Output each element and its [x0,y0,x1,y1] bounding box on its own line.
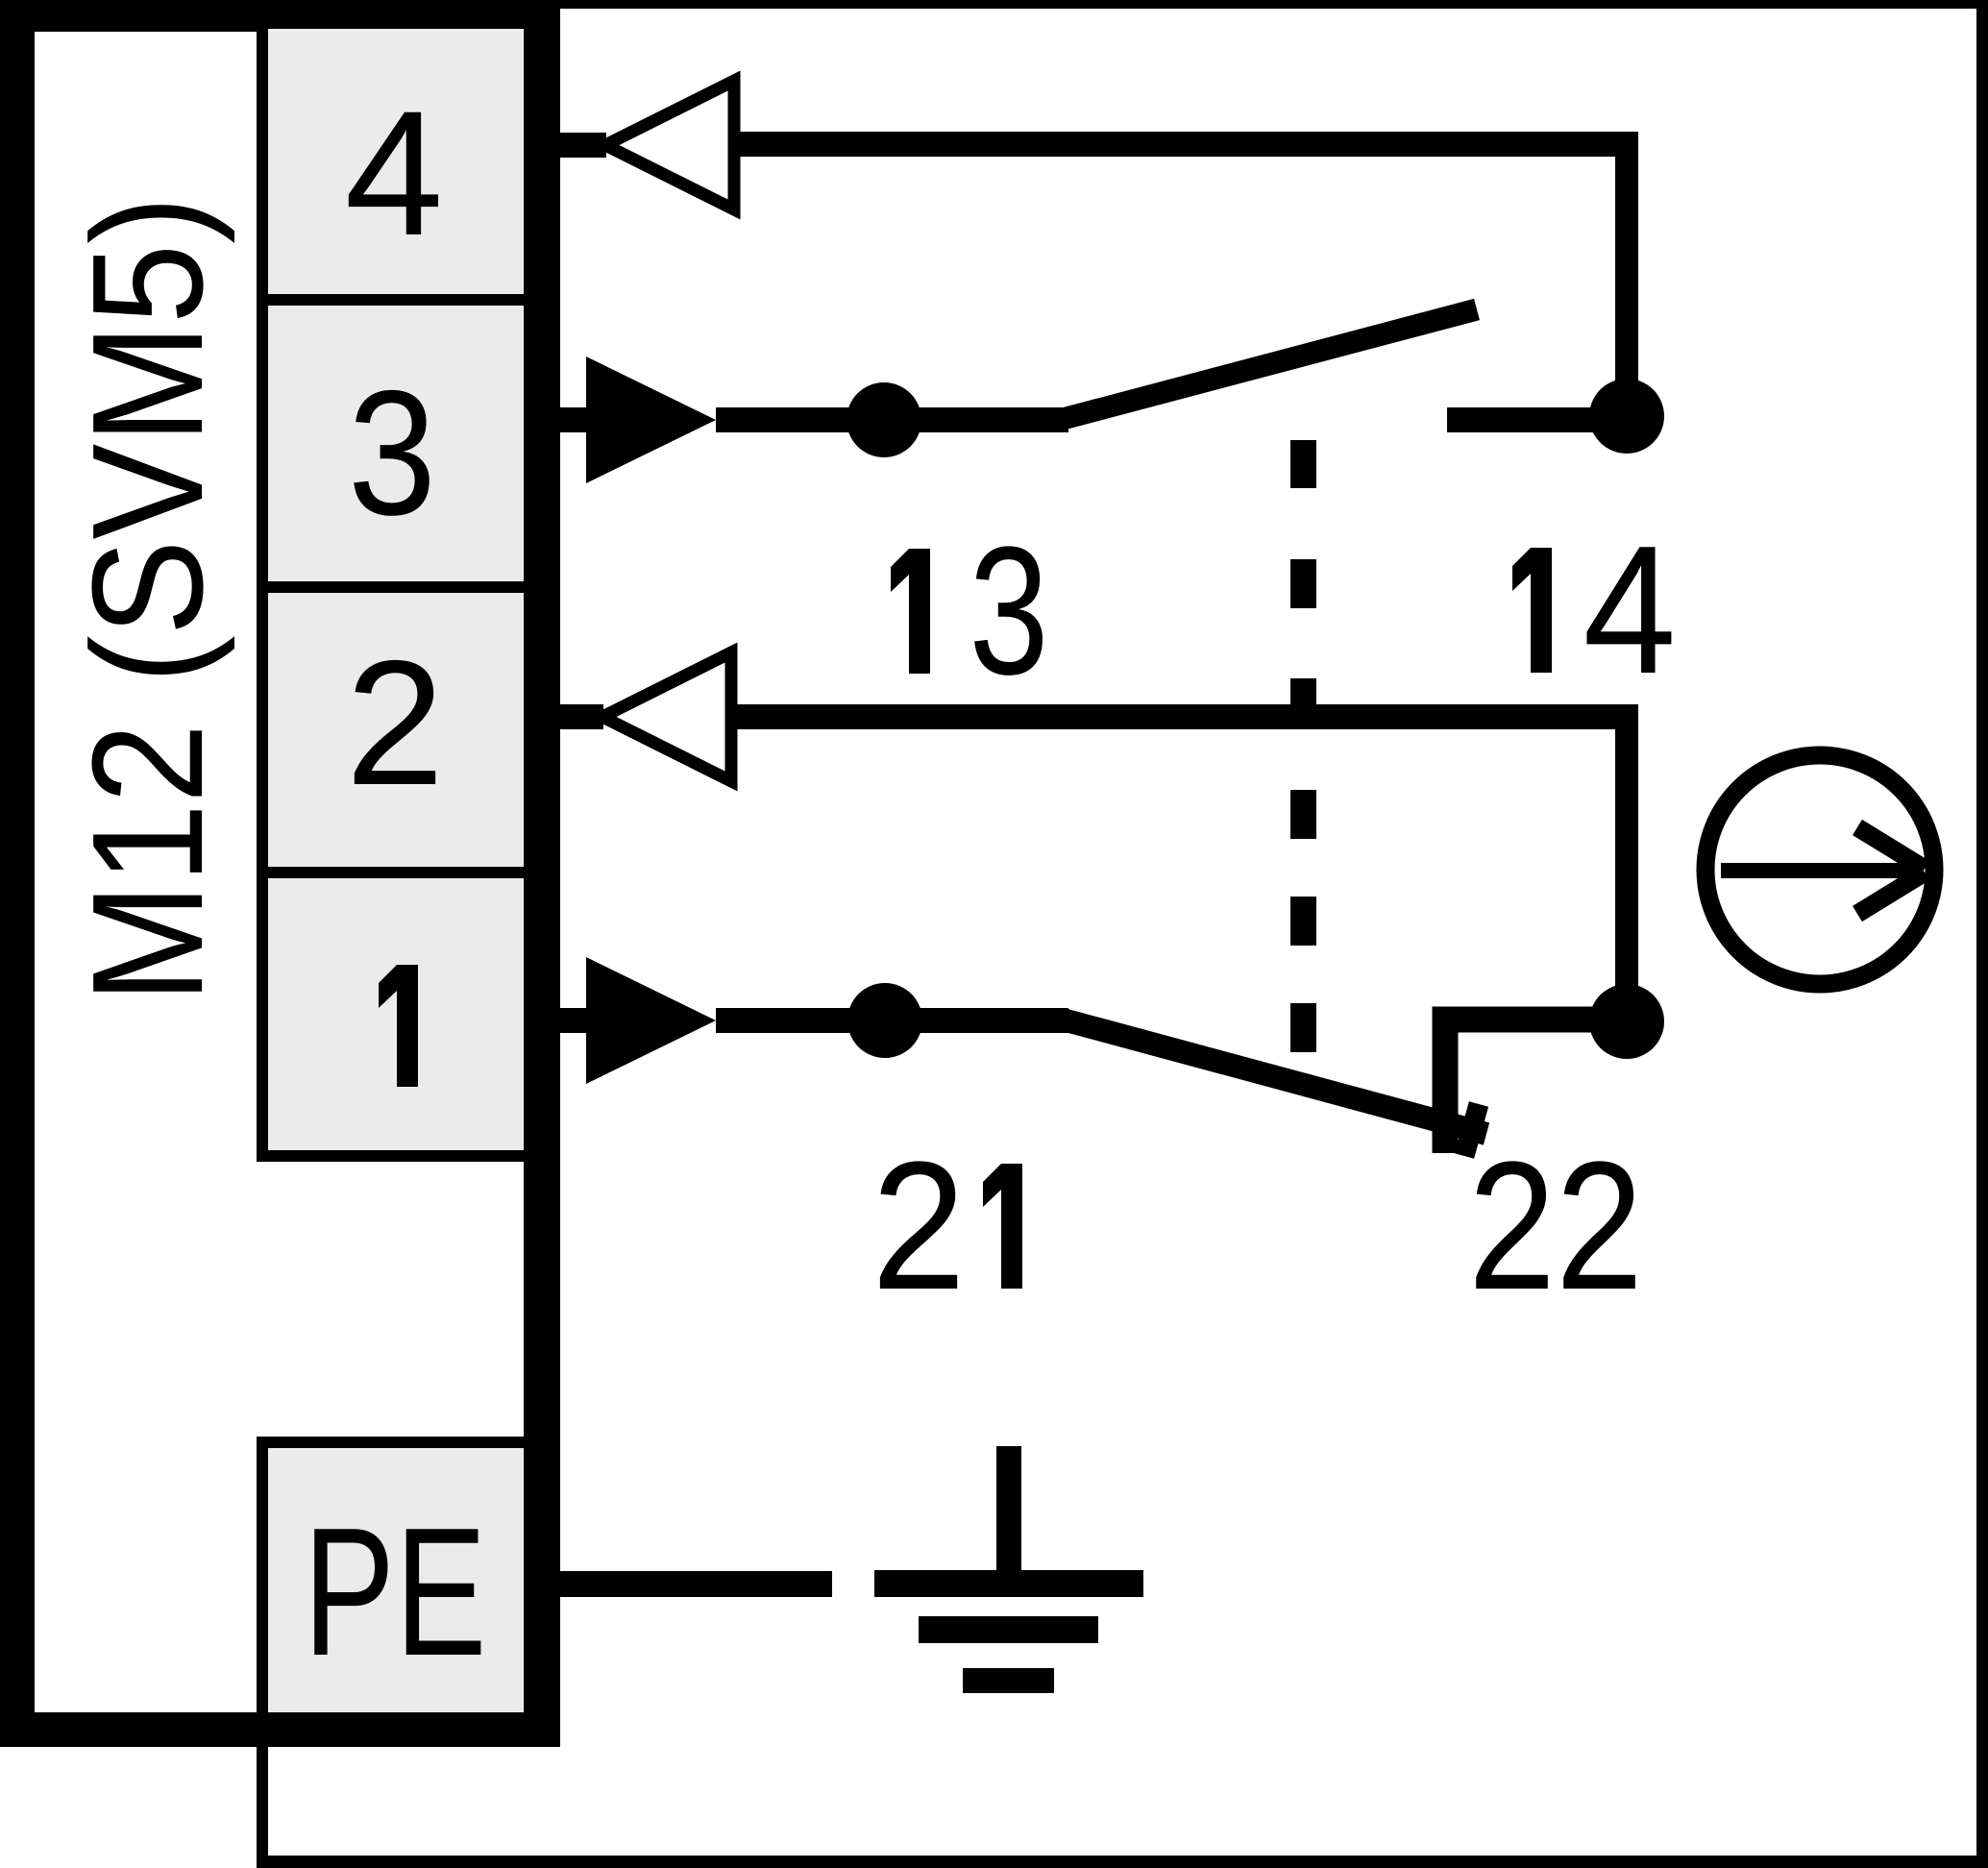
svg-text:4: 4 [345,75,444,273]
label 13 [891,549,930,674]
wire pin 3 [560,407,1068,432]
svg-text:PE: PE [304,1490,487,1694]
blade end tick [1464,1104,1479,1156]
node pin3 wire [847,382,921,457]
wire pin 2 [560,704,1638,1021]
node pin1 wire [847,983,922,1058]
svg-text:2: 2 [346,625,445,823]
output arrow pin 2 [602,652,731,781]
input arrow pin 3 [586,356,716,483]
actuation direction symbol [1706,755,1934,984]
pin PE box [268,1448,524,1712]
node 14 [1589,379,1664,454]
contact 22 fixed lead [1445,1020,1627,1153]
pin 3 box [268,306,524,581]
pin label 1 [379,965,418,1087]
wire pin 4 [560,132,1638,420]
label 14 [1512,548,1552,673]
ground symbol [874,1446,1143,1693]
contact 14 fixed lead [1447,407,1627,432]
contact 21-22 moving blade [1063,1020,1486,1134]
mechanical link dashed line [1290,440,1316,1052]
pin box column borders [257,29,535,1747]
svg-text:3: 3 [348,355,436,553]
pin 4 box [268,29,524,294]
svg-text:M12 (SVM5): M12 (SVM5) [60,196,235,1003]
svg-text:2: 2 [871,1124,966,1328]
pin 1 box [268,878,524,1150]
wire pin 1 [560,1008,1068,1033]
node 22 [1589,984,1664,1059]
pin 2 box [268,593,524,867]
svg-text:3: 3 [969,509,1049,713]
output arrow pin 4 [605,81,734,209]
svg-text:22: 22 [1468,1124,1643,1328]
contact 13-14 moving blade [1063,309,1477,419]
input arrow pin 1 [586,957,716,1084]
connector housing outline M12 box [0,0,560,1747]
wire PE [560,1571,832,1597]
svg-text:4: 4 [1583,508,1677,712]
